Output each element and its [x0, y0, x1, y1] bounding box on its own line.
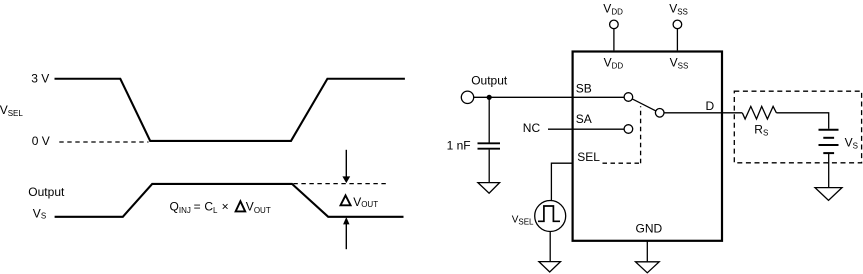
svg-text:NC: NC — [523, 121, 541, 135]
switch arm — [632, 99, 656, 111]
dashed load box — [734, 91, 861, 163]
Output terminal — [461, 91, 473, 103]
dashed control line horizontal — [603, 162, 641, 164]
capacitor CL 1 nF — [478, 143, 501, 148]
wire source to ground — [549, 232, 551, 262]
svg-text:D: D — [706, 99, 715, 113]
delta glyph (between arrows) — [341, 195, 351, 205]
dashed control line vertical — [640, 106, 642, 163]
svg-text:Output: Output — [471, 73, 508, 87]
dashed 0V reference line — [59, 141, 148, 143]
ground (VSEL source) — [539, 262, 561, 272]
wire GND to ground — [646, 240, 648, 261]
svg-text:RS: RS — [754, 123, 768, 138]
svg-text:0 V: 0 V — [32, 134, 50, 148]
wire resistor to battery — [776, 113, 828, 129]
arrow down to dashed line — [342, 150, 350, 183]
formula delta glyph — [236, 201, 246, 211]
svg-text:=: = — [194, 200, 201, 214]
svg-text:QINJ: QINJ — [170, 200, 191, 215]
VSS terminal — [673, 20, 682, 29]
node junction dot — [487, 95, 492, 100]
wire battery to ground — [828, 153, 830, 187]
wire SEL to source — [551, 163, 572, 200]
arrow up to solid line — [343, 217, 349, 249]
wire Output to SB — [474, 96, 624, 98]
ground (capacitor) — [478, 183, 500, 194]
wire NC to SA — [548, 128, 624, 130]
svg-text:1 nF: 1 nF — [447, 139, 471, 153]
svg-text:VSEL: VSEL — [0, 103, 23, 118]
svg-text:Output: Output — [28, 185, 65, 199]
ground (VS battery) — [815, 188, 842, 201]
switch pole — [655, 109, 664, 118]
svg-text:SA: SA — [576, 112, 592, 126]
svg-text:VDD: VDD — [604, 55, 624, 70]
svg-text:L: L — [213, 206, 218, 215]
dashed delta reference line — [293, 183, 388, 185]
pulse source VSEL — [535, 201, 566, 232]
wire VDD to box — [613, 29, 615, 51]
IC box — [573, 52, 722, 241]
wire VSS to box — [676, 29, 678, 51]
svg-text:VDD: VDD — [603, 2, 623, 17]
VDD terminal — [610, 20, 619, 29]
svg-text:3 V: 3 V — [31, 72, 49, 86]
svg-text:VS: VS — [33, 206, 46, 220]
resistor RS — [742, 106, 776, 119]
svg-text:VSEL: VSEL — [512, 214, 534, 226]
svg-text:VSS: VSS — [670, 55, 689, 70]
switch throw SA — [624, 125, 633, 134]
wire capacitor to ground — [488, 150, 490, 183]
svg-text:VOUT: VOUT — [246, 200, 271, 215]
svg-text:SB: SB — [576, 82, 592, 96]
svg-text:×: × — [222, 200, 229, 214]
svg-text:SEL: SEL — [577, 150, 600, 164]
wire node to capacitor — [488, 97, 490, 142]
svg-text:GND: GND — [636, 221, 663, 235]
svg-text:VS: VS — [845, 136, 858, 151]
switch throw SB — [624, 93, 633, 102]
waveform VSEL trace — [55, 79, 405, 141]
ground (GND) — [636, 262, 660, 273]
svg-text:VSS: VSS — [669, 2, 688, 17]
wire pole to resistor RS — [664, 112, 742, 114]
waveform VS output trace — [55, 184, 404, 217]
svg-text:VOUT: VOUT — [353, 195, 378, 209]
battery VS — [819, 130, 839, 153]
